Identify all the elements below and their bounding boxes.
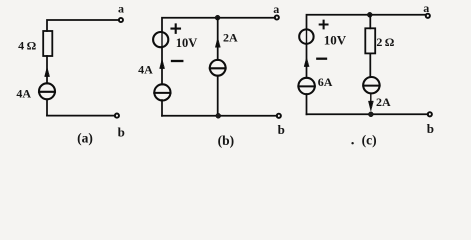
wire bottom (b): corner to terminal b bbox=[162, 115, 277, 117]
wire source to bottom (a) bbox=[46, 99, 48, 115]
minus sign (b) bbox=[172, 60, 182, 62]
svg-text:2A: 2A bbox=[223, 31, 238, 45]
svg-text:(c): (c) bbox=[362, 133, 377, 148]
junction top (c) bbox=[367, 12, 372, 17]
period before caption (c) bbox=[351, 142, 353, 144]
svg-text:b: b bbox=[118, 124, 125, 139]
svg-text:10V: 10V bbox=[324, 32, 347, 47]
wire source to bottom (b) bbox=[161, 100, 163, 116]
svg-text:2 Ω: 2 Ω bbox=[376, 35, 394, 49]
terminal b (b) bbox=[277, 114, 281, 118]
wire between sources (c) bbox=[306, 44, 308, 78]
junction bottom (c) bbox=[368, 112, 373, 117]
minus sign (c) bbox=[317, 58, 326, 60]
wire source to bottom (c) bbox=[306, 94, 308, 114]
junction bottom (b) bbox=[216, 113, 221, 118]
terminal a (b) bbox=[275, 15, 279, 19]
terminal a (c) bbox=[426, 14, 430, 18]
wire resistor to source (c) bbox=[369, 53, 371, 77]
wire resistor to source (a) bbox=[46, 56, 48, 83]
current source 2A (c) bbox=[363, 77, 379, 111]
current source 6A (c) bbox=[298, 58, 314, 95]
svg-text:(b): (b) bbox=[218, 133, 235, 148]
wire bottom (a): corner to terminal b bbox=[47, 115, 115, 117]
current source 2A (b) bbox=[210, 38, 226, 76]
svg-text:a: a bbox=[273, 2, 279, 16]
terminal b (a) bbox=[115, 114, 119, 118]
plus sign (b) bbox=[172, 24, 181, 32]
terminal a (a) bbox=[119, 18, 123, 22]
svg-text:b: b bbox=[278, 122, 285, 137]
svg-text:4A: 4A bbox=[138, 63, 153, 77]
current source 4A (a) bbox=[39, 67, 55, 99]
terminal b (c) bbox=[428, 112, 432, 116]
wire top (a): corner to terminal a bbox=[47, 20, 119, 31]
wire between sources (b) bbox=[161, 47, 163, 84]
wire resistor branch upper (c) bbox=[369, 15, 371, 28]
wire top (b): corner to terminal a bbox=[162, 18, 275, 32]
resistor 4Ω (a) bbox=[43, 31, 52, 56]
svg-text:b: b bbox=[427, 121, 434, 136]
plus sign (c) bbox=[320, 21, 328, 29]
svg-text:a: a bbox=[118, 1, 124, 15]
svg-text:4A: 4A bbox=[16, 86, 31, 100]
svg-text:4 Ω: 4 Ω bbox=[18, 39, 36, 53]
voltage source 10V (c) bbox=[299, 29, 313, 43]
wire 2A branch upper (b) bbox=[217, 18, 219, 60]
svg-text:(a): (a) bbox=[77, 130, 93, 145]
svg-text:a: a bbox=[423, 1, 429, 15]
voltage source 10V (b) bbox=[153, 32, 168, 47]
svg-text:2A: 2A bbox=[376, 95, 391, 109]
wire top (c): corner to terminal a bbox=[307, 15, 427, 30]
wire 2A branch lower (b) bbox=[217, 76, 219, 116]
svg-text:10V: 10V bbox=[176, 36, 198, 50]
wire bottom (c): corner to terminal b bbox=[307, 113, 429, 115]
current source 4A (b) bbox=[154, 59, 170, 100]
resistor 2Ω (c) bbox=[365, 28, 375, 53]
junction top (b) bbox=[215, 15, 220, 20]
svg-text:6A: 6A bbox=[318, 75, 333, 89]
